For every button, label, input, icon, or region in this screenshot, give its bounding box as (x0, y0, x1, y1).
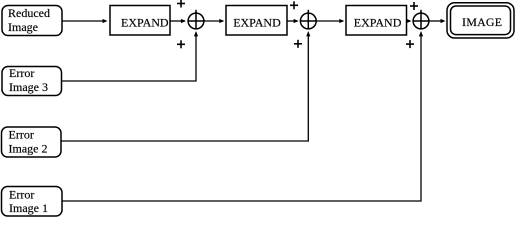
svg-text:EXPAND: EXPAND (354, 15, 402, 29)
svg-text:Error: Error (9, 188, 34, 202)
svg-text:Image 2: Image 2 (9, 142, 48, 156)
svg-text:Error: Error (9, 66, 34, 80)
svg-text:Image 3: Image 3 (9, 80, 48, 94)
svg-text:Reduced: Reduced (8, 6, 50, 20)
svg-text:Error: Error (9, 128, 34, 142)
svg-text:EXPAND: EXPAND (233, 15, 281, 29)
svg-text:IMAGE: IMAGE (462, 15, 502, 29)
svg-text:Image: Image (8, 20, 38, 34)
svg-text:EXPAND: EXPAND (121, 15, 169, 29)
svg-text:Image 1: Image 1 (9, 201, 48, 215)
